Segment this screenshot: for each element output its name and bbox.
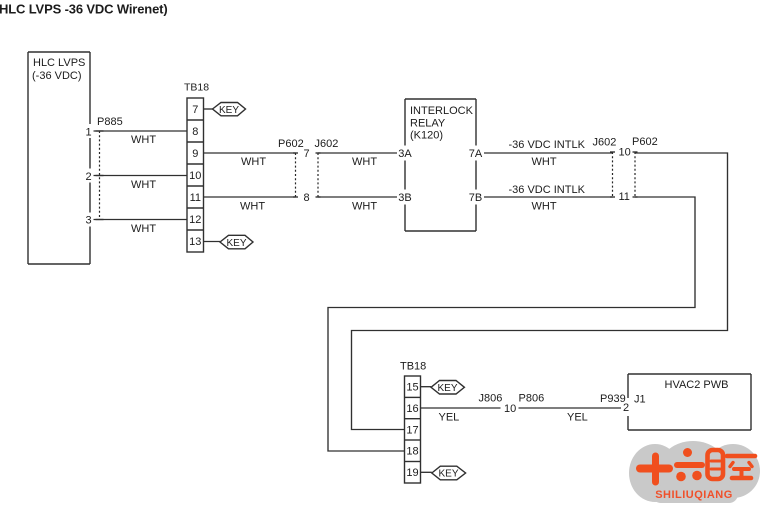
svg-text:YEL: YEL	[567, 412, 588, 424]
char yue	[708, 450, 724, 479]
wire 7B to J602-11	[484, 196, 613, 198]
svg-text:7B: 7B	[469, 192, 482, 204]
box HLC LVPS (-36 VDC)	[28, 52, 90, 264]
wire J602-8 to relay 3B	[318, 196, 397, 198]
char kong	[727, 454, 755, 459]
svg-text:(K120): (K120)	[410, 130, 443, 142]
wire pin2 to TB18-10	[94, 175, 188, 177]
svg-text:3B: 3B	[398, 192, 411, 204]
relay box INTERLOCK RELAY (K120)	[405, 99, 476, 231]
svg-text:WHT: WHT	[352, 156, 377, 168]
svg-text:11: 11	[619, 191, 630, 203]
wire route P602-11 down-around to TB18-18	[328, 197, 695, 451]
svg-text:J602: J602	[593, 137, 617, 149]
svg-text:KEY: KEY	[437, 383, 457, 394]
char liu	[683, 448, 692, 457]
svg-text:WHT: WHT	[240, 201, 265, 213]
svg-text:WHT: WHT	[352, 201, 377, 213]
svg-text:2: 2	[623, 402, 629, 414]
svg-text:P939: P939	[600, 393, 626, 405]
svg-text:RELAY: RELAY	[410, 117, 446, 129]
wire J602-7 to relay 3A	[318, 152, 397, 154]
svg-text:7A: 7A	[469, 148, 483, 160]
svg-text:10: 10	[504, 403, 516, 415]
svg-text:-36 VDC INTLK: -36 VDC INTLK	[509, 184, 586, 196]
wire pin3 to TB18-12	[94, 219, 188, 221]
svg-text:WHT: WHT	[131, 179, 156, 191]
svg-text:7: 7	[192, 104, 198, 116]
wire P806 to P939-2	[519, 407, 622, 409]
svg-text:11: 11	[190, 192, 201, 204]
watermark logo	[629, 441, 760, 503]
svg-text:WHT: WHT	[131, 134, 156, 146]
svg-text:KEY: KEY	[438, 469, 458, 480]
svg-text:9: 9	[192, 148, 198, 160]
svg-text:J806: J806	[479, 393, 503, 405]
svg-text:18: 18	[406, 446, 418, 458]
svg-text:INTERLOCK: INTERLOCK	[410, 105, 474, 117]
svg-text:13: 13	[189, 236, 201, 248]
wire route P602-10 down-around to TB18-17	[352, 153, 728, 430]
svg-text:P806: P806	[519, 393, 545, 405]
svg-text:HVAC2 PWB: HVAC2 PWB	[665, 379, 729, 391]
svg-text:3: 3	[85, 215, 91, 227]
KEY flag at TB18-7	[204, 108, 213, 110]
svg-text:15: 15	[406, 382, 418, 394]
svg-text:SHILIUQIANG: SHILIUQIANG	[655, 489, 733, 501]
char shi	[640, 465, 669, 473]
svg-text:P602: P602	[278, 138, 304, 150]
svg-text:(-36 VDC): (-36 VDC)	[32, 70, 82, 82]
svg-text:KEY: KEY	[226, 238, 246, 249]
svg-text:HLC LVPS: HLC LVPS	[33, 57, 85, 69]
KEY flag at TB18-19	[421, 471, 432, 473]
svg-text:3A: 3A	[398, 148, 412, 160]
svg-text:19: 19	[406, 467, 418, 479]
svg-text:2: 2	[85, 171, 91, 183]
wire TB18-11 to P602-8	[204, 196, 296, 198]
svg-text:WHT: WHT	[532, 201, 557, 213]
wire 7A to J602-10	[484, 152, 613, 154]
svg-text:10: 10	[619, 147, 631, 159]
svg-text:10: 10	[189, 170, 201, 182]
svg-text:12: 12	[189, 214, 201, 226]
svg-text:J1: J1	[634, 394, 646, 406]
svg-text:WHT: WHT	[131, 223, 156, 235]
svg-text:KEY: KEY	[219, 105, 239, 116]
svg-text:WHT: WHT	[532, 156, 557, 168]
svg-text:TB18: TB18	[184, 82, 209, 94]
svg-text:HLC LVPS -36 VDC Wirenet): HLC LVPS -36 VDC Wirenet)	[0, 2, 168, 17]
svg-text:8: 8	[304, 192, 310, 204]
svg-text:TB18: TB18	[400, 361, 426, 373]
svg-text:1: 1	[85, 127, 91, 139]
svg-text:YEL: YEL	[439, 412, 460, 424]
wire TB18-9 to P602-7	[204, 152, 296, 154]
svg-text:17: 17	[406, 424, 418, 436]
svg-text:J602: J602	[315, 138, 339, 150]
KEY flag at TB18-15	[421, 386, 432, 388]
svg-text:7: 7	[304, 148, 310, 160]
svg-text:-36 VDC INTLK: -36 VDC INTLK	[509, 139, 586, 151]
box HVAC2 PWB	[628, 374, 751, 430]
svg-text:WHT: WHT	[241, 156, 266, 168]
svg-text:16: 16	[406, 403, 418, 415]
svg-text:P885: P885	[97, 116, 123, 128]
wire TB18-16 to J806-10	[421, 407, 501, 409]
svg-text:8: 8	[192, 126, 198, 138]
svg-text:P602: P602	[632, 136, 658, 148]
wire pin1 to TB18-8	[94, 130, 188, 132]
KEY flag at TB18-13	[204, 241, 221, 243]
